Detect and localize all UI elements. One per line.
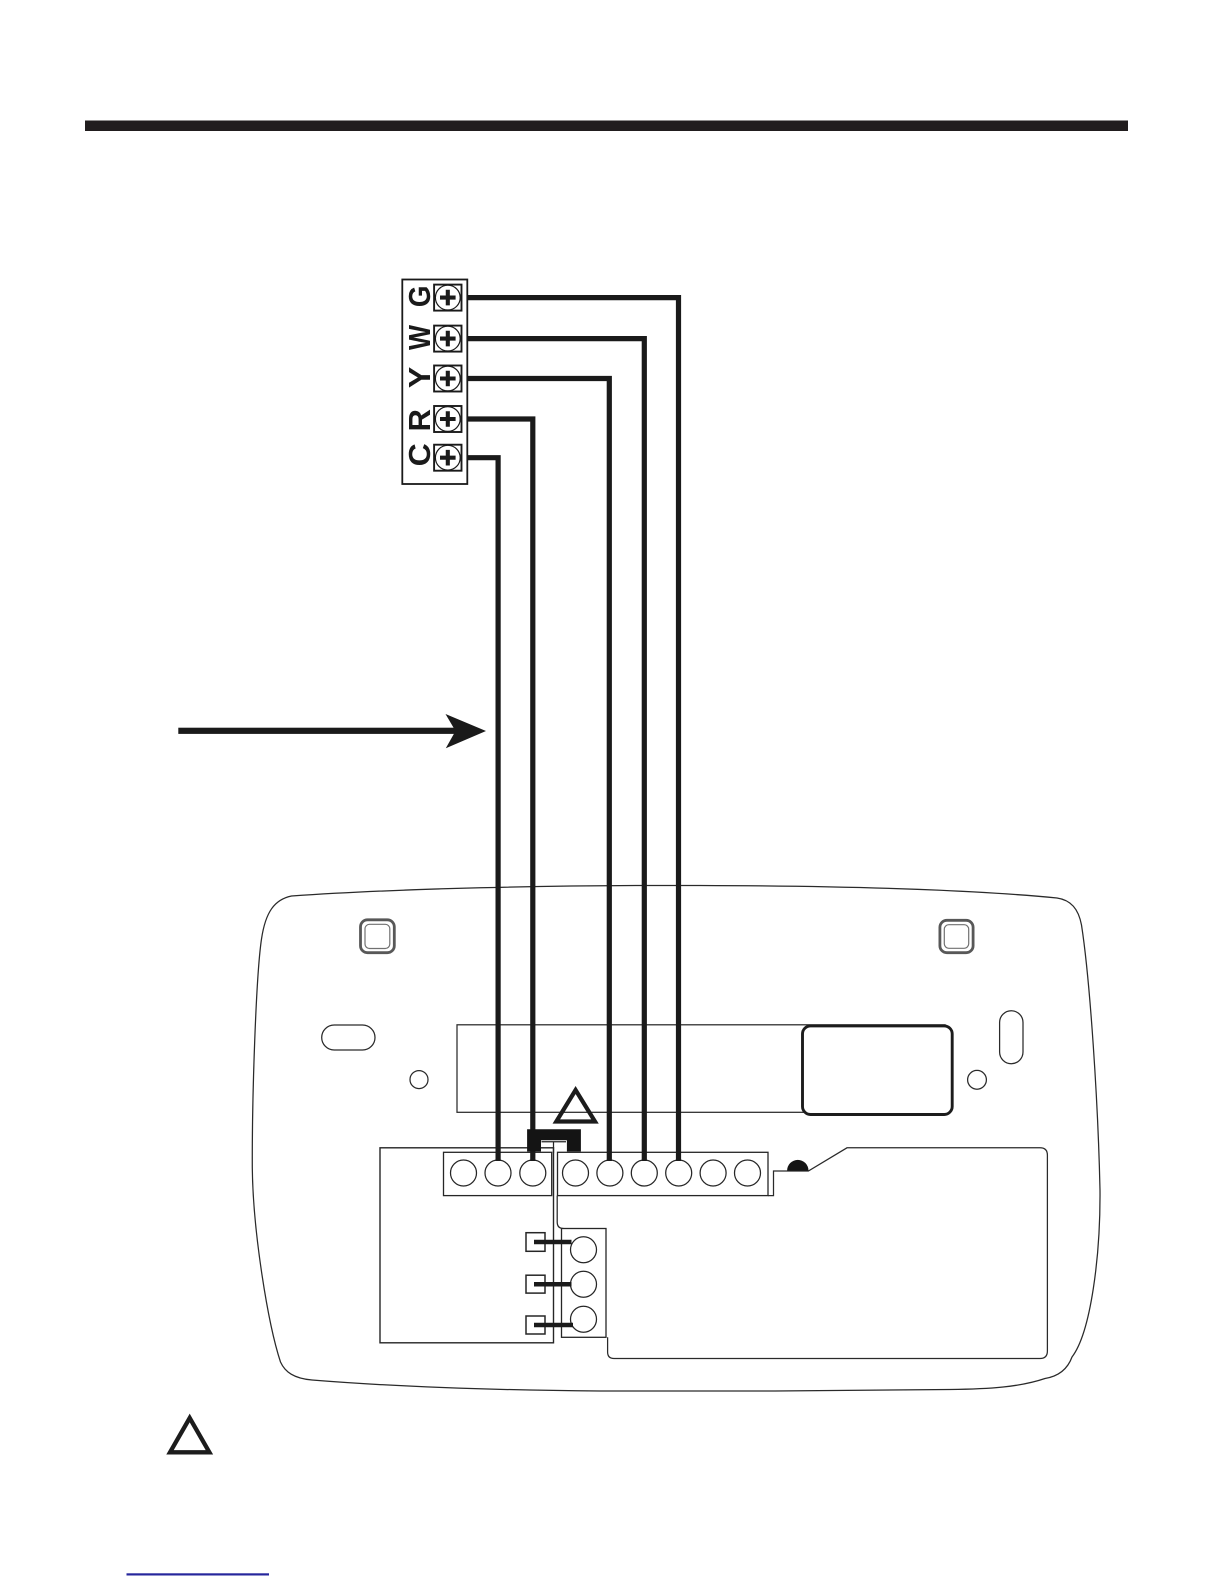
right mounting screw hole (outer): [940, 920, 973, 952]
left strip terminal circles: [451, 1160, 477, 1186]
plug block: [562, 1229, 607, 1338]
left oval slot: [322, 1025, 375, 1050]
link line from strip gap to plug block: [557, 1196, 563, 1229]
screw terminal R: [434, 406, 461, 432]
wire R: [462, 419, 533, 1161]
right small hole: [968, 1070, 987, 1089]
clamp notch line: [542, 1142, 567, 1153]
svg-text:G: G: [404, 286, 437, 308]
right vertical slot: [1000, 1011, 1023, 1064]
wide recess rectangle: [457, 1025, 945, 1113]
thermostat backplate outline: [252, 885, 1100, 1391]
right mounting screw hole (inner): [944, 925, 968, 949]
pointer arrow shaft: [178, 728, 458, 734]
plug circles: [571, 1237, 597, 1263]
left mounting screw hole (inner): [365, 924, 390, 948]
wire W: [462, 339, 645, 1161]
left terminal strip: [444, 1152, 552, 1195]
pin wire 2: [534, 1282, 572, 1287]
screw terminal Y: [434, 366, 461, 392]
screw terminal W: [434, 326, 461, 352]
wire C: [462, 458, 498, 1161]
left mounting screw hole (outer): [361, 920, 395, 953]
pin wire 3: [534, 1323, 573, 1328]
black dome button: [787, 1160, 808, 1171]
right module polygon: [608, 1148, 1048, 1359]
pointer arrow head: [446, 714, 487, 748]
battery compartment (bold rounded rect): [803, 1026, 953, 1115]
left component box: [380, 1148, 554, 1343]
screw terminal G: [434, 285, 461, 311]
wire Y: [462, 379, 610, 1162]
left small hole: [410, 1071, 428, 1089]
right terminal strip: [558, 1152, 769, 1195]
black wire clamp bracket: [527, 1129, 581, 1151]
footnote rule (navy): [127, 1573, 270, 1575]
pin square 1: [526, 1233, 545, 1252]
screw terminal C: [434, 445, 461, 471]
svg-text:Y: Y: [403, 367, 437, 389]
wire G: [462, 298, 679, 1161]
terminal block outline: [402, 280, 467, 485]
header rule bar: [85, 121, 1128, 132]
svg-text:C: C: [403, 443, 437, 466]
pin wire 1: [534, 1240, 572, 1245]
right strip terminal circles: [563, 1160, 589, 1186]
svg-text:W: W: [403, 325, 437, 350]
warning triangle on plate: [556, 1090, 595, 1122]
caution triangle (footnote): [170, 1418, 209, 1452]
pin square 2: [526, 1275, 545, 1293]
pin square 3: [526, 1316, 545, 1334]
svg-text:R: R: [402, 409, 437, 431]
